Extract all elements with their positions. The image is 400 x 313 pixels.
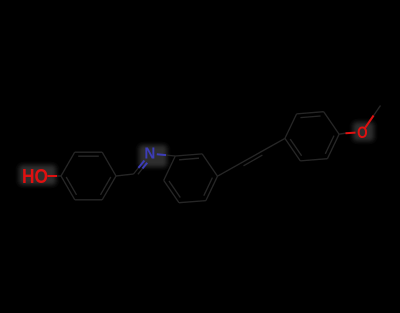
svg-text:HO: HO xyxy=(22,166,48,188)
svg-text:N: N xyxy=(144,146,155,163)
svg-text:O: O xyxy=(357,123,368,142)
